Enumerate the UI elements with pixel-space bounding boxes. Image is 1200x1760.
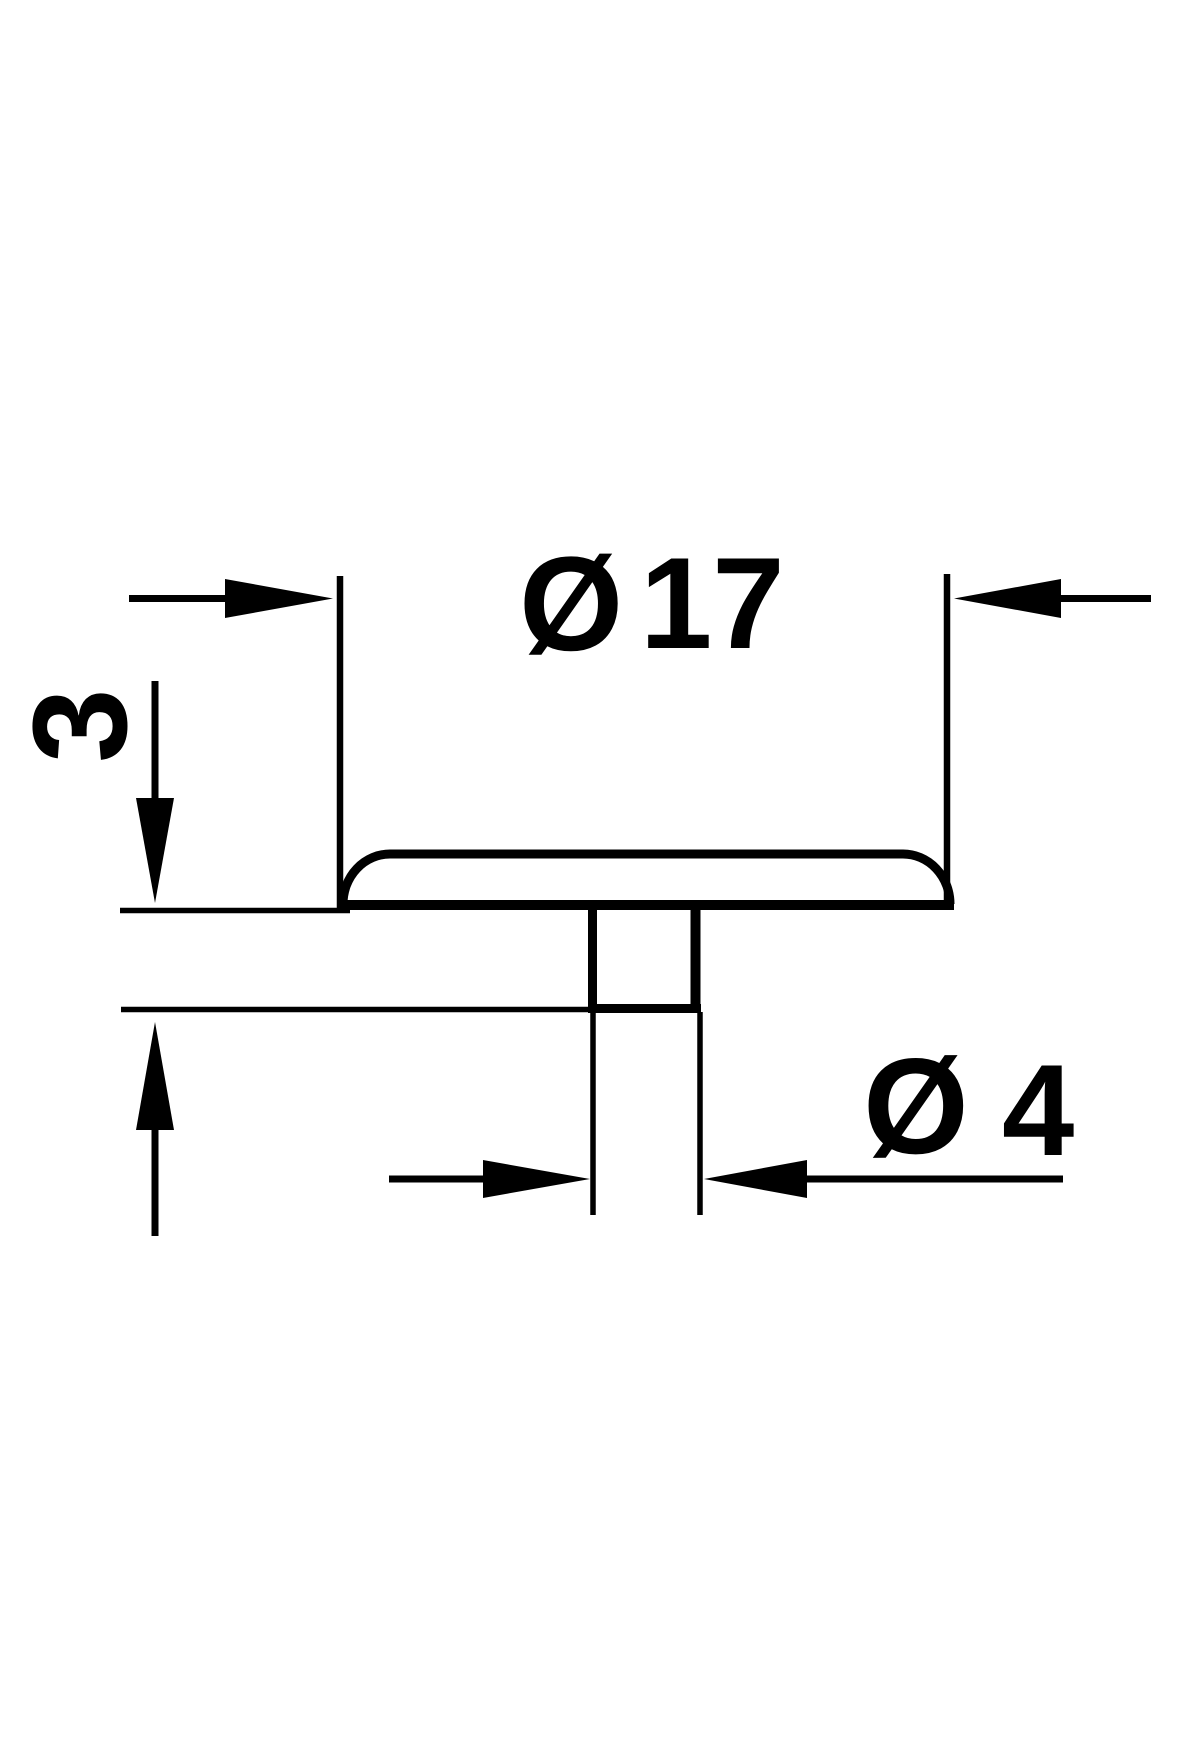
cap bottom edge	[339, 900, 954, 910]
dimension label Ø 17	[519, 530, 785, 679]
svg-text:3: 3	[6, 688, 155, 763]
cap head profile (dome outline)	[343, 854, 950, 904]
dimension arrow right (Ø4, pointing left)	[704, 1160, 1063, 1198]
stem bottom edge	[588, 1004, 701, 1013]
stem right wall	[691, 905, 701, 1010]
surface line (upper board line)	[120, 908, 350, 914]
dimension arrow top (3, pointing down)	[136, 681, 174, 903]
dimension label Ø 4	[863, 1030, 1074, 1183]
dimension arrow right (Ø17, pointing left)	[954, 579, 1151, 618]
dimension arrow bottom (3, pointing up)	[136, 1022, 174, 1236]
stem left wall	[588, 905, 597, 1010]
dimension arrow left (Ø17, pointing right)	[129, 579, 333, 618]
dimension arrow left (Ø4, pointing right)	[389, 1160, 590, 1198]
extension line left (Ø17)	[337, 576, 344, 908]
svg-text:4: 4	[1002, 1037, 1074, 1183]
svg-text:Ø: Ø	[863, 1030, 969, 1182]
lower board line	[121, 1007, 591, 1013]
extension line right (Ø4)	[697, 1012, 703, 1215]
svg-text:Ø: Ø	[519, 530, 623, 679]
extension line left (Ø4)	[590, 1012, 596, 1215]
extension line right (Ø17)	[944, 574, 951, 903]
svg-text:17: 17	[640, 530, 785, 676]
